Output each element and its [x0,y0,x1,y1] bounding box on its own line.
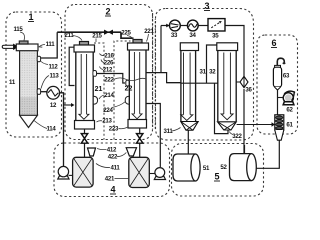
svg-text:62: 62 [286,107,293,114]
svg-text:52: 52 [220,164,227,171]
svg-text:21: 21 [95,86,103,93]
svg-text:11: 11 [9,79,16,86]
svg-text:421: 421 [105,176,115,183]
svg-text:226: 226 [104,60,114,67]
svg-text:215: 215 [92,33,102,40]
svg-text:223: 223 [109,126,119,133]
svg-text:216: 216 [104,53,114,60]
svg-text:32: 32 [209,69,216,76]
svg-text:311: 311 [163,128,173,135]
svg-text:213: 213 [102,118,112,125]
svg-text:4: 4 [110,185,115,195]
svg-text:36: 36 [245,87,252,94]
svg-text:422: 422 [108,153,118,160]
svg-text:22: 22 [125,86,133,93]
svg-text:111: 111 [46,41,56,48]
svg-text:225: 225 [121,30,131,37]
svg-text:31: 31 [200,69,207,76]
svg-text:1: 1 [28,12,33,22]
svg-text:221: 221 [144,28,154,35]
svg-text:112: 112 [48,64,58,71]
svg-text:2: 2 [105,7,110,17]
svg-text:211: 211 [64,32,74,39]
svg-text:222: 222 [104,77,114,84]
svg-text:34: 34 [189,32,196,39]
svg-text:114: 114 [46,126,56,133]
svg-text:322: 322 [232,133,242,140]
svg-text:214: 214 [104,92,114,99]
svg-text:51: 51 [203,165,210,172]
svg-text:113: 113 [49,73,59,80]
svg-text:33: 33 [171,32,178,39]
svg-text:3: 3 [204,1,209,11]
svg-text:212: 212 [103,67,113,74]
svg-text:5: 5 [214,172,219,182]
svg-text:224: 224 [103,107,113,114]
svg-text:61: 61 [286,122,293,129]
svg-text:115: 115 [13,26,23,33]
svg-text:12: 12 [50,102,57,109]
svg-text:63: 63 [283,73,290,80]
svg-text:35: 35 [212,33,219,40]
svg-text:6: 6 [271,38,276,48]
svg-text:411: 411 [110,165,120,172]
